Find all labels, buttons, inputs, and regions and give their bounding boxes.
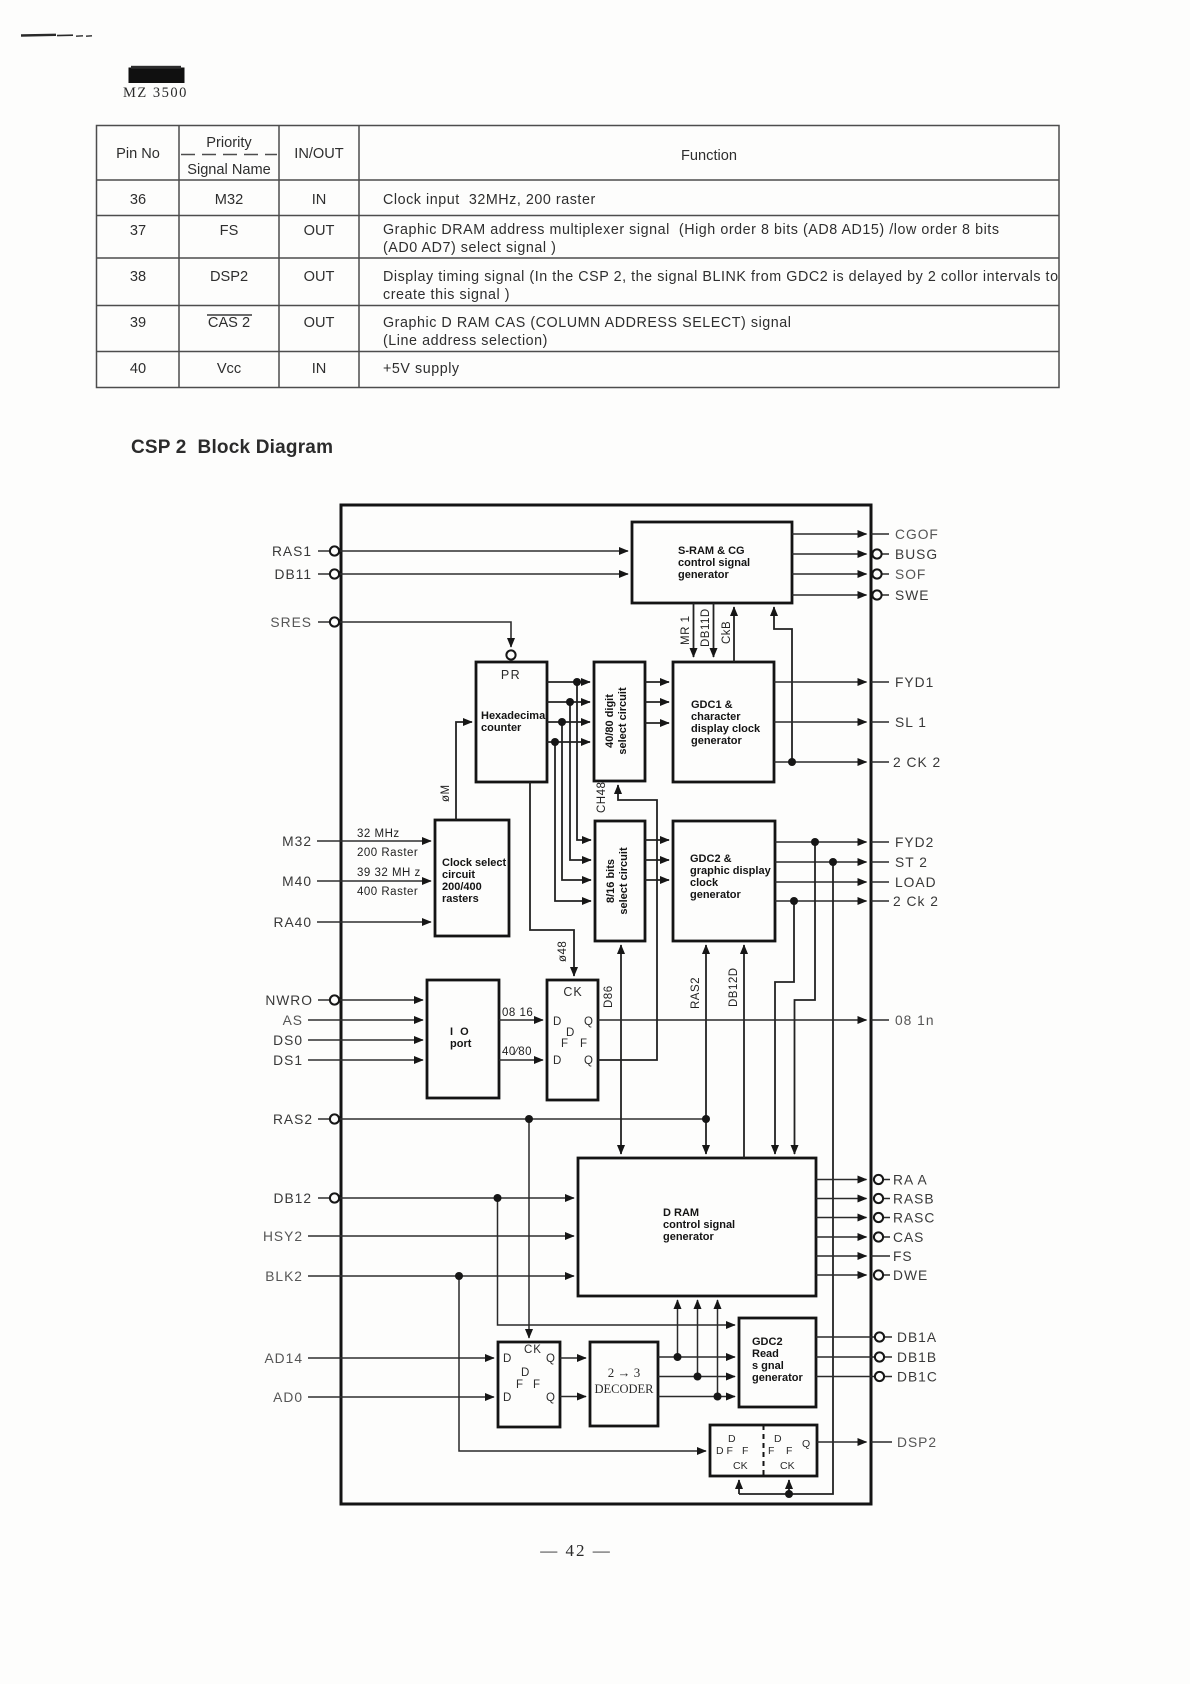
wire DS0 xyxy=(308,1039,423,1041)
wire SRES xyxy=(318,622,511,647)
svg-text:Read: Read xyxy=(752,1348,779,1360)
junction RAS2-vert xyxy=(702,1115,710,1123)
svg-text:circuit: circuit xyxy=(442,869,475,881)
svg-text:ST 2: ST 2 xyxy=(895,855,928,870)
svg-text:F: F xyxy=(516,1379,523,1391)
wire AD0 xyxy=(308,1396,494,1398)
wire DB1B xyxy=(816,1356,874,1358)
svg-text:counter: counter xyxy=(481,722,522,734)
wire 2CK2 feedback to S-RAM xyxy=(774,607,792,762)
terminal CAS xyxy=(874,1232,883,1241)
svg-text:200/400: 200/400 xyxy=(442,881,482,893)
svg-text:control signal: control signal xyxy=(678,557,750,569)
wire D-FF Q1 xyxy=(560,1357,586,1359)
svg-text:M40: M40 xyxy=(282,874,312,889)
wire DWE xyxy=(816,1274,867,1276)
wire HSY2 xyxy=(308,1235,574,1237)
svg-text:DSP2: DSP2 xyxy=(210,269,248,285)
svg-text:DB1A: DB1A xyxy=(897,1330,937,1345)
svg-text:36: 36 xyxy=(130,192,146,208)
wire DB1C xyxy=(816,1376,874,1378)
wire SOF xyxy=(792,573,867,575)
svg-text:2 Ck 2: 2 Ck 2 xyxy=(893,894,939,909)
svg-text:control signal: control signal xyxy=(663,1219,735,1231)
block U3: 40/80 digit select circuit xyxy=(594,662,645,781)
svg-text:GDC2 &: GDC2 & xyxy=(690,853,732,865)
svg-text:400 Raster: 400 Raster xyxy=(357,886,418,898)
svg-text:GDC1 &: GDC1 & xyxy=(691,699,733,711)
terminal PR preset xyxy=(506,650,515,659)
svg-text:Priority: Priority xyxy=(206,135,252,151)
row 40 xyxy=(130,361,326,377)
wire RA40 xyxy=(317,921,431,923)
wire FS xyxy=(816,1255,867,1257)
svg-text:AD0: AD0 xyxy=(273,1390,303,1405)
block U13: GDC2 read signal generator xyxy=(739,1318,816,1407)
svg-text:Q: Q xyxy=(584,1016,593,1028)
wire BLK2 branch to dual FF xyxy=(459,1276,706,1451)
wire decoder out3 xyxy=(658,1396,735,1398)
wire 40/80 to GDC1 b xyxy=(645,701,669,703)
terminal DWE xyxy=(874,1270,883,1279)
svg-text:create this signal ): create this signal ) xyxy=(383,287,510,303)
wire D-FF Q2 xyxy=(560,1396,586,1398)
svg-text:2 CK 2: 2 CK 2 xyxy=(893,755,941,770)
block U2: PR hexadecimal counter xyxy=(476,662,548,782)
svg-text:generator: generator xyxy=(678,569,729,581)
terminal SOF xyxy=(872,569,881,578)
wire DB12D xyxy=(743,945,745,1158)
wire PR out1 xyxy=(547,681,590,683)
junction PR bus c xyxy=(558,718,566,726)
outer frame xyxy=(341,505,871,1504)
wire CH48 xyxy=(598,785,657,1060)
svg-text:select circuit: select circuit xyxy=(618,847,630,915)
junction PR bus a xyxy=(573,678,581,686)
wire DB12 xyxy=(318,1197,574,1199)
svg-text:HSY2: HSY2 xyxy=(263,1229,303,1244)
svg-text:OUT: OUT xyxy=(304,269,335,285)
svg-text:32 MHz: 32 MHz xyxy=(357,828,400,840)
svg-text:generator: generator xyxy=(691,735,742,747)
svg-text:M32: M32 xyxy=(215,192,243,208)
wire M32 xyxy=(317,840,431,842)
svg-text:D: D xyxy=(553,1055,561,1067)
svg-text:8/16 bits: 8/16 bits xyxy=(605,859,617,903)
svg-text:Hexadecimal: Hexadecimal xyxy=(481,710,548,722)
black redaction box xyxy=(129,68,185,84)
svg-text:DECODER: DECODER xyxy=(594,1382,654,1396)
wire bus b to 8/16 xyxy=(570,702,591,860)
svg-text:FYD1: FYD1 xyxy=(895,675,934,690)
svg-text:FS: FS xyxy=(893,1249,913,1264)
svg-text:(AD0 AD7) select signal ): (AD0 AD7) select signal ) xyxy=(383,240,556,256)
junction ST2 xyxy=(829,858,837,866)
svg-text:(Line address selection): (Line address selection) xyxy=(383,333,548,349)
terminal DB1C xyxy=(875,1372,884,1381)
svg-text:PR: PR xyxy=(501,668,521,682)
svg-text:+5V supply: +5V supply xyxy=(383,361,460,377)
row 37 xyxy=(130,223,335,239)
block U9: CK D-FF xyxy=(547,980,598,1100)
wire M40 xyxy=(317,880,431,882)
svg-text:08 1n: 08 1n xyxy=(895,1013,935,1028)
svg-text:MR 1: MR 1 xyxy=(680,616,692,645)
svg-text:DB1B: DB1B xyxy=(897,1350,937,1365)
terminal DB1A xyxy=(875,1332,884,1341)
svg-text:39 32 MH z: 39 32 MH z xyxy=(357,867,421,879)
wire bus c to 8/16 xyxy=(562,722,591,880)
wire 40/80 to GDC1 a xyxy=(645,681,669,683)
svg-text:CK: CK xyxy=(733,1460,748,1472)
svg-text:S-RAM & CG: S-RAM & CG xyxy=(678,545,745,557)
junction decoder1 xyxy=(674,1353,682,1361)
wire FYD1 xyxy=(774,681,867,683)
svg-text:display clock: display clock xyxy=(691,723,761,735)
terminal RASB xyxy=(874,1194,883,1203)
wire FYD2 jog to D RAM xyxy=(795,842,816,1154)
terminal DB11 xyxy=(330,569,339,578)
svg-text:IN: IN xyxy=(312,361,327,377)
row 36 xyxy=(130,192,326,208)
svg-text:Vcc: Vcc xyxy=(217,361,241,377)
wire CGOF xyxy=(792,533,867,535)
svg-text:CK: CK xyxy=(780,1460,795,1472)
wire 40/80 select xyxy=(499,1059,543,1061)
wire RASB xyxy=(816,1198,867,1200)
top-left smudge mark xyxy=(21,35,92,36)
table header text xyxy=(116,135,737,178)
svg-text:CSP 2 Block Diagram: CSP 2 Block Diagram xyxy=(131,437,333,458)
block U6: 8/16 bits select circuit xyxy=(595,821,645,941)
wire RASA xyxy=(816,1179,867,1181)
wire 2CK2 (GDC2) xyxy=(775,900,867,902)
svg-text:37: 37 xyxy=(130,223,146,239)
row 38 xyxy=(130,269,335,285)
wire phiM xyxy=(456,722,472,820)
svg-text:38: 38 xyxy=(130,269,146,285)
junction FYD2 xyxy=(811,838,819,846)
block U1: S-RAM & CG control signal generator xyxy=(632,522,792,603)
wire ST2 xyxy=(775,861,867,863)
wire decoder up1 xyxy=(677,1300,679,1357)
svg-text:08 16: 08 16 xyxy=(502,1007,533,1019)
junction decoder3 xyxy=(714,1393,722,1401)
svg-text:D: D xyxy=(728,1433,736,1445)
svg-text:DSP2: DSP2 xyxy=(897,1435,937,1450)
junction RAS2-DFF xyxy=(525,1115,533,1123)
svg-text:Q: Q xyxy=(546,1392,555,1404)
svg-text:Graphic D RAM CAS (COLUMN ADDR: Graphic D RAM CAS (COLUMN ADDRESS SELECT… xyxy=(383,315,792,331)
wire DB12 branch to GDC2 read xyxy=(498,1198,736,1325)
wire 2CK2 jog to D RAM xyxy=(775,901,794,1154)
wire D86 xyxy=(620,945,622,1154)
svg-text:F: F xyxy=(786,1445,792,1457)
terminal DB12 xyxy=(330,1193,339,1202)
svg-text:generator: generator xyxy=(663,1231,714,1243)
block U5: clock select circuit xyxy=(435,820,509,936)
block U14: dual D-FF (DSP2) xyxy=(710,1425,817,1476)
wire FYD2 xyxy=(775,841,867,843)
wire MR1 xyxy=(693,603,695,657)
wire BUSG xyxy=(792,553,867,555)
svg-text:Clock input 32MHz, 200 raster: Clock input 32MHz, 200 raster xyxy=(383,192,596,208)
svg-text:generator: generator xyxy=(690,889,741,901)
svg-text:Q: Q xyxy=(546,1353,555,1365)
svg-text:SL 1: SL 1 xyxy=(895,715,927,730)
svg-text:RASC: RASC xyxy=(893,1211,935,1226)
svg-text:DB12D: DB12D xyxy=(728,967,740,1007)
svg-text:OUT: OUT xyxy=(304,315,335,331)
svg-text:— 42 —: — 42 — xyxy=(539,1541,612,1560)
terminal SRES xyxy=(330,617,339,626)
svg-text:Signal Name: Signal Name xyxy=(187,162,271,178)
svg-text:CAS: CAS xyxy=(893,1230,924,1245)
svg-text:RAS2: RAS2 xyxy=(690,977,702,1009)
svg-text:39: 39 xyxy=(130,315,146,331)
svg-text:IN: IN xyxy=(312,192,327,208)
wire AD14 xyxy=(308,1357,494,1359)
svg-text:RASB: RASB xyxy=(893,1192,935,1207)
svg-text:OUT: OUT xyxy=(304,223,335,239)
svg-text:AS: AS xyxy=(283,1013,303,1028)
svg-text:GDC2: GDC2 xyxy=(752,1336,783,1348)
svg-text:2 → 3: 2 → 3 xyxy=(608,1365,641,1380)
svg-text:I O: I O xyxy=(450,1026,471,1038)
table grid xyxy=(97,126,1060,388)
svg-text:SWE: SWE xyxy=(895,588,929,603)
wire ST2 clock run xyxy=(739,862,833,1494)
wire DSP2 xyxy=(817,1441,867,1443)
svg-text:DS1: DS1 xyxy=(273,1053,303,1068)
wire CAS xyxy=(816,1236,867,1238)
svg-text:CAS 2: CAS 2 xyxy=(208,315,250,331)
svg-text:clock: clock xyxy=(690,877,719,889)
svg-text:Function: Function xyxy=(681,148,737,164)
svg-text:øM: øM xyxy=(440,784,452,802)
svg-text:F: F xyxy=(768,1445,774,1457)
svg-text:M32: M32 xyxy=(282,834,312,849)
svg-text:BLK2: BLK2 xyxy=(265,1269,303,1284)
svg-text:LOAD: LOAD xyxy=(895,875,937,890)
wire decoder up2 xyxy=(697,1300,699,1377)
svg-text:SOF: SOF xyxy=(895,567,926,582)
wire 08/16 select xyxy=(499,1019,543,1021)
svg-text:CK: CK xyxy=(563,985,582,999)
svg-text:RA40: RA40 xyxy=(273,915,312,930)
svg-text:CH48: CH48 xyxy=(596,782,608,813)
svg-text:BUSG: BUSG xyxy=(895,547,938,562)
junction BLK2 branch xyxy=(455,1272,463,1280)
svg-text:200 Raster: 200 Raster xyxy=(357,847,418,859)
svg-text:generator: generator xyxy=(752,1372,803,1384)
svg-text:Graphic DRAM address multiplex: Graphic DRAM address multiplexer signal … xyxy=(383,222,1000,238)
svg-text:D F: D F xyxy=(716,1445,733,1457)
wire PR out4 xyxy=(547,741,590,743)
svg-text:RA A: RA A xyxy=(893,1173,928,1188)
terminal DB1B xyxy=(875,1352,884,1361)
svg-text:F: F xyxy=(561,1038,568,1050)
wire LOAD xyxy=(775,881,867,883)
wire bus a to 8/16 xyxy=(577,682,591,840)
wire CkB xyxy=(733,607,735,662)
block U8: I/O port xyxy=(427,980,499,1098)
junction decoder2 xyxy=(694,1373,702,1381)
svg-text:IN/OUT: IN/OUT xyxy=(294,146,344,162)
svg-text:graphic display: graphic display xyxy=(690,865,772,877)
block U7: GDC2 & graphic display clock generator xyxy=(673,821,775,941)
svg-text:40⁄80: 40⁄80 xyxy=(502,1046,532,1058)
svg-text:DB11: DB11 xyxy=(275,567,313,582)
svg-text:F: F xyxy=(742,1445,748,1457)
block U4: GDC1 & character display clock generator xyxy=(673,662,774,782)
wire Q 08/16 out xyxy=(598,1019,867,1021)
svg-text:NWRO: NWRO xyxy=(265,993,313,1008)
junction dual-FF CK xyxy=(785,1490,793,1498)
svg-text:Q: Q xyxy=(584,1055,593,1067)
wire SWE xyxy=(792,594,867,596)
wire DB1A xyxy=(816,1336,874,1338)
wire 40/80 to GDC1 c xyxy=(645,722,669,724)
wire PR out3 xyxy=(547,721,590,723)
svg-text:D86: D86 xyxy=(603,985,615,1008)
wire bus d to 8/16 xyxy=(555,742,591,901)
wire dual-FF CK right xyxy=(788,1480,790,1494)
terminal RAS1 xyxy=(330,546,339,555)
svg-text:FYD2: FYD2 xyxy=(895,835,934,850)
junction DB12 branch xyxy=(494,1194,502,1202)
svg-text:MZ 3500: MZ 3500 xyxy=(123,85,188,101)
svg-text:port: port xyxy=(450,1038,472,1050)
svg-text:DS0: DS0 xyxy=(273,1033,303,1048)
svg-text:AD14: AD14 xyxy=(264,1351,303,1366)
wire PR out2 xyxy=(547,701,590,703)
junction 2CK2/GDC2 xyxy=(790,897,798,905)
wire RAS2 vertical xyxy=(705,945,707,1154)
wire dual-FF CK left xyxy=(738,1480,740,1494)
svg-text:rasters: rasters xyxy=(442,893,479,905)
wire decoder up3 xyxy=(717,1300,719,1397)
wire RASC xyxy=(816,1217,867,1219)
svg-text:select circuit: select circuit xyxy=(617,687,629,755)
wire NWRO xyxy=(318,999,423,1001)
svg-text:Pin No: Pin No xyxy=(116,146,160,162)
block U11: address D-FF xyxy=(498,1342,560,1427)
wire 2CK2 (GDC1) xyxy=(774,761,867,763)
svg-text:RAS1: RAS1 xyxy=(272,544,312,559)
svg-text:D: D xyxy=(503,1353,511,1365)
wire BLK2 xyxy=(308,1275,574,1277)
svg-text:DWE: DWE xyxy=(893,1268,928,1283)
wire RAS2 to D-FF clock xyxy=(528,1119,530,1338)
svg-text:CkB: CkB xyxy=(721,621,733,644)
wire AS xyxy=(308,1019,423,1021)
wire decoder out2 xyxy=(658,1376,735,1378)
svg-text:CGOF: CGOF xyxy=(895,527,939,542)
wire SL1 xyxy=(774,721,867,723)
wire DB11D xyxy=(713,603,715,657)
wire phi48 xyxy=(530,782,574,976)
row 39 xyxy=(130,315,335,331)
terminal RASA xyxy=(874,1175,883,1184)
svg-text:D: D xyxy=(553,1016,561,1028)
wire DB11 xyxy=(318,573,628,575)
svg-text:ø48: ø48 xyxy=(557,941,569,962)
wire DS1 xyxy=(308,1059,423,1061)
wire decoder out1 xyxy=(658,1356,735,1358)
svg-text:SRES: SRES xyxy=(270,615,312,630)
svg-text:D RAM: D RAM xyxy=(663,1207,699,1219)
svg-text:D: D xyxy=(774,1433,782,1445)
junction 2CK2/GDC1 xyxy=(788,758,796,766)
junction PR bus d xyxy=(551,738,559,746)
svg-text:F: F xyxy=(580,1038,587,1050)
svg-text:character: character xyxy=(691,711,741,723)
svg-text:D: D xyxy=(503,1392,511,1404)
terminal NWRO xyxy=(330,995,339,1004)
terminal RASC xyxy=(874,1213,883,1222)
block U12: 2-to-3 decoder xyxy=(590,1342,658,1426)
svg-text:40: 40 xyxy=(130,361,146,377)
terminal SWE xyxy=(872,590,881,599)
terminal BUSG xyxy=(872,549,881,558)
wire 8/16 to GDC2 c xyxy=(645,879,669,881)
svg-text:DB1C: DB1C xyxy=(897,1370,938,1385)
svg-text:RAS2: RAS2 xyxy=(273,1112,313,1127)
wire 8/16 to GDC2 a xyxy=(645,839,669,841)
svg-text:Clock select: Clock select xyxy=(442,857,507,869)
wire 8/16 to GDC2 b xyxy=(645,859,669,861)
block U10: D RAM control signal generator xyxy=(578,1158,816,1296)
svg-text:Display timing signal (In the: Display timing signal (In the CSP 2, the… xyxy=(383,269,1059,285)
svg-text:D: D xyxy=(521,1367,529,1379)
wire RAS1 xyxy=(318,550,628,552)
wire RAS2 horizontal xyxy=(318,1118,706,1120)
terminal RAS2 xyxy=(330,1114,339,1123)
svg-text:DB12: DB12 xyxy=(273,1191,312,1206)
junction PR bus b xyxy=(566,698,574,706)
svg-text:CK: CK xyxy=(524,1344,542,1356)
svg-text:s gnal: s gnal xyxy=(752,1360,784,1372)
svg-text:FS: FS xyxy=(220,223,239,239)
svg-text:40/80 digit: 40/80 digit xyxy=(604,694,616,748)
svg-text:Q: Q xyxy=(802,1438,810,1450)
svg-text:DB11D: DB11D xyxy=(700,608,712,647)
svg-text:F: F xyxy=(533,1379,540,1391)
